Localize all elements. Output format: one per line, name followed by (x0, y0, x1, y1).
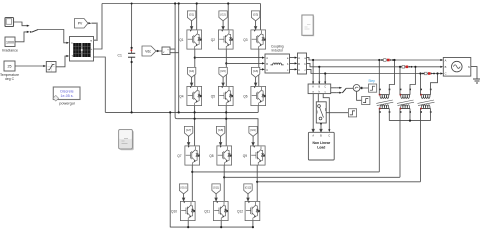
svg-text:Non Linear: Non Linear (312, 141, 330, 145)
svg-text:Q8: Q8 (209, 154, 213, 158)
DC- riser (178, 4, 180, 113)
from tag [G8] (216, 126, 224, 145)
svg-text:Q10: Q10 (171, 210, 177, 214)
svg-text:[G10]: [G10] (181, 186, 187, 189)
wire switch to PV Ir input (38, 30, 66, 43)
three-phase source block (443, 58, 471, 77)
svg-text:Q1: Q1 (179, 38, 183, 42)
svg-text:Load: Load (317, 146, 325, 150)
wire 25 to saturation (15, 65, 44, 67)
DC+ bus inverter 2 (177, 119, 258, 146)
svg-text:C: C (298, 69, 300, 72)
svg-text:[G5]: [G5] (221, 69, 226, 73)
current measurement phase B (400, 66, 413, 69)
svg-text:Inductor: Inductor (272, 49, 284, 53)
svg-text:C: C (324, 86, 326, 89)
svg-text:Ir: Ir (72, 41, 74, 45)
top DC+ bus (102, 3, 261, 5)
svg-text:deg C: deg C (5, 77, 15, 81)
arrows into coupling inductor (262, 57, 265, 71)
from tag [G9] (249, 126, 257, 145)
svg-text:-: - (91, 55, 92, 59)
DC- riser inverter 2 (169, 112, 171, 227)
step block 2 (357, 92, 370, 105)
goto tag PV (75, 19, 92, 29)
circle block (353, 85, 360, 92)
three-phase VI measurement block (298, 53, 307, 74)
svg-text:-: - (167, 52, 168, 55)
svg-text:[G3]: [G3] (253, 12, 258, 16)
IGBT Q5 (211, 86, 233, 105)
current measurement phase A (381, 59, 394, 62)
svg-text:C1: C1 (118, 54, 122, 58)
wire breaker to NLL phase B (320, 123, 322, 132)
saturation block (46, 62, 56, 73)
from tag [G10] (179, 184, 187, 201)
non linear load block (308, 132, 334, 160)
IGBT Q10 (171, 201, 195, 220)
wires measurement to breaker (317, 94, 319, 102)
three-phase measurement block horizontal (308, 84, 331, 94)
wire PV tag to PV array m port (91, 23, 97, 40)
svg-text:C: C (445, 72, 447, 76)
svg-text:Q9: Q9 (243, 154, 247, 158)
wire source neutral to ground (471, 67, 477, 79)
drops to local load block (312, 60, 314, 84)
IGBT Q6 (243, 86, 265, 105)
svg-text:Vdc: Vdc (145, 49, 151, 53)
svg-text:C: C (328, 135, 330, 138)
svg-text:[G11]: [G11] (213, 186, 219, 189)
svg-text:A: A (266, 56, 268, 60)
IGBT Q9 (243, 146, 265, 165)
IGBT Q7 (177, 146, 199, 165)
arrows into source (440, 59, 443, 75)
svg-text:[G7]: [G7] (186, 128, 191, 132)
svg-text:B: B (266, 62, 268, 66)
from tag [G3] (251, 11, 259, 30)
svg-text:+: + (91, 47, 93, 51)
phase C midpoint wire (258, 50, 260, 87)
annotation block gray left (119, 129, 134, 150)
IGBT Q11 (204, 201, 228, 220)
svg-text:Q11: Q11 (204, 210, 210, 214)
svg-text:[G12]: [G12] (245, 186, 251, 189)
IGBT Q12 (237, 201, 260, 220)
capacitor C1 (118, 3, 136, 114)
svg-text:C: C (266, 68, 268, 72)
svg-text:B: B (445, 65, 447, 69)
wire switch to summing circle (346, 87, 353, 89)
svg-text:1000: 1000 (6, 40, 14, 44)
transformer T1 (376, 59, 395, 172)
from tag [G4] (187, 67, 195, 86)
IGBT Q2 (211, 30, 233, 49)
wire 1000 to manual switch input 2 (15, 32, 27, 42)
svg-text:Irradiance: Irradiance (2, 49, 18, 53)
coupling inductor block (265, 45, 290, 74)
constant 25 Temperature (0, 61, 19, 81)
voltage measurement Vdc (162, 47, 170, 55)
grid phase line C (307, 69, 441, 73)
wire signal builder to manual switch input 1 (14, 22, 28, 26)
transformer T3 (418, 72, 439, 181)
svg-text:[G4]: [G4] (189, 69, 194, 73)
svg-text:A: A (445, 58, 447, 62)
bottom DC- bus inverter 2 (170, 226, 253, 228)
svg-text:Q6: Q6 (243, 95, 247, 99)
inverter2 phase B midpoint (223, 166, 225, 202)
svg-text:N: N (468, 65, 470, 69)
svg-text:Q5: Q5 (211, 95, 215, 99)
from tag [G11] (212, 184, 220, 201)
ground symbol (473, 79, 480, 83)
step block 1 with blue label (360, 79, 377, 92)
from tag [G2] (219, 11, 227, 30)
from tag [G7] (184, 126, 192, 145)
svg-text:Q12: Q12 (237, 210, 243, 214)
svg-text:[G6]: [G6] (253, 69, 258, 73)
from tag [G1] (187, 11, 195, 30)
phase B midpoint wire (225, 50, 227, 87)
row4 emitters to bottom bus (188, 221, 253, 227)
inverter2 phase A midpoint (191, 166, 193, 202)
svg-text:25: 25 (8, 65, 12, 69)
wires Vdc measurement to DC rails (170, 49, 179, 53)
goto tag Vdc (142, 46, 162, 56)
powergui block (53, 87, 80, 105)
transformer secondary common bus (389, 120, 430, 122)
arrowheads into three-phase block (312, 82, 326, 85)
svg-text:Q7: Q7 (177, 154, 181, 158)
PV array block (70, 37, 94, 62)
svg-text:[G1]: [G1] (189, 12, 194, 16)
svg-text:1e-05 s.: 1e-05 s. (61, 94, 74, 98)
from tag [G12] (244, 184, 252, 201)
breaker control wire from step3 (326, 112, 348, 114)
manual switch Irradiance (30, 29, 38, 32)
wires top bus to row1 collectors (197, 4, 261, 30)
svg-text:[G9]: [G9] (251, 128, 256, 132)
IGBT Q3 (243, 30, 265, 49)
wires coupling inductor to VI measurement (290, 58, 295, 70)
DC- bus (105, 111, 258, 113)
svg-text:[G2]: [G2] (221, 12, 226, 16)
current measurement phase C (422, 72, 435, 75)
svg-text:m: m (90, 40, 92, 43)
DC+ riser (175, 4, 177, 119)
svg-text:Q3: Q3 (243, 38, 247, 42)
IGBT Q4 (179, 86, 201, 105)
IGBT Q8 (209, 146, 231, 165)
svg-text:[G8]: [G8] (218, 128, 223, 132)
from tag [G5] (219, 67, 227, 86)
wire saturation to PV T input (56, 56, 67, 67)
IGBT Q1 (179, 30, 201, 49)
from tag [G6] (251, 67, 259, 86)
wire measurement to NLL phase A (312, 94, 314, 133)
grid phase line A (307, 58, 441, 60)
inverter2 phase C midpoint (256, 166, 258, 202)
svg-text:Q2: Q2 (211, 38, 215, 42)
svg-text:Step: Step (368, 79, 375, 83)
signal builder block (5, 18, 14, 27)
transformer T2 (397, 66, 417, 178)
wire PV- to bottom DC bus (94, 57, 106, 112)
constant 1000 Irradiance (2, 37, 18, 53)
svg-text:PV: PV (78, 22, 83, 26)
svg-text:powergui: powergui (59, 101, 75, 105)
phase A midpoint wire (194, 50, 196, 87)
grid phase line B (307, 63, 441, 66)
row2 emitters to DC- bus and down to row3 collectors (194, 106, 196, 146)
wire PV+ to top DC bus (94, 4, 103, 50)
manual switch grid (331, 87, 347, 94)
step block 3 (348, 109, 356, 117)
circuit breaker block (316, 102, 326, 123)
annotation block gray top right (302, 15, 314, 36)
svg-text:Q4: Q4 (179, 95, 183, 99)
